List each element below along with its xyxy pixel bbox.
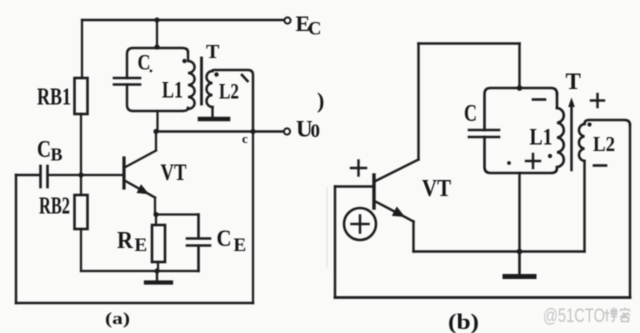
phase dot left in tank (b) xyxy=(507,161,511,165)
svg-text:C: C xyxy=(217,226,232,251)
svg-text:B: B xyxy=(51,145,63,165)
scan artifact: faint vertical line xyxy=(326,187,328,268)
resistor RB2 xyxy=(75,195,88,229)
svg-text:VT: VT xyxy=(422,176,451,202)
polarity + above L2 (b) xyxy=(591,94,604,107)
wire: collector node to U0 terminal (a) xyxy=(156,130,283,132)
tank frame (a) xyxy=(127,48,188,111)
capacitor CE xyxy=(157,215,210,272)
wire: emitter node to RE (a) xyxy=(155,215,157,226)
inductor L1 (b) xyxy=(557,108,564,167)
resistor RE xyxy=(152,225,165,262)
svg-text:L2: L2 xyxy=(593,132,615,156)
polarity minus in tank (b) xyxy=(533,98,545,101)
inductor L2 (a) xyxy=(207,70,254,132)
wire: top rail down to tank top (b) xyxy=(518,44,520,89)
svg-text:): ) xyxy=(317,88,324,113)
wire: rail down to RB1 (a) xyxy=(81,20,83,78)
wire: emitter to L2 return (b) xyxy=(414,250,585,252)
inductor L1 (a) xyxy=(188,52,195,109)
wire: tank bottom lead to ground node (b) xyxy=(518,173,520,252)
label CB xyxy=(37,137,63,165)
watermark hanzi 客 xyxy=(620,308,630,322)
svg-text:(b): (b) xyxy=(448,309,479,333)
junction: rail / tank riser (a) xyxy=(154,17,159,22)
wire: EC supply rail (a) xyxy=(82,19,284,21)
label EC xyxy=(296,11,322,40)
wire: emitter node to CE branch (a) xyxy=(156,213,199,215)
speck after C label (a) xyxy=(150,70,153,73)
capacitor CB xyxy=(16,166,48,187)
wire: emitter drop (b) xyxy=(412,222,414,252)
wire: base node down to RB2 (a) xyxy=(80,175,82,195)
wire: left feedback edge (a) xyxy=(15,175,17,303)
terminal U0 xyxy=(284,128,290,134)
source symbol (b) xyxy=(344,208,376,240)
wire: rail down to tank top (a) xyxy=(156,20,158,47)
phase dot right in tank (b) xyxy=(548,154,552,158)
wire: bottom rail (a) xyxy=(16,302,253,305)
svg-text:L2: L2 xyxy=(219,79,239,104)
inductor L2 (b) xyxy=(579,120,630,161)
junction: L2 return on U0 wire (a) xyxy=(250,129,255,134)
polarity + at base (b) xyxy=(351,161,366,176)
label U0 xyxy=(296,117,320,143)
tank frame (b) xyxy=(485,88,558,173)
svg-text:RB2: RB2 xyxy=(39,194,70,220)
svg-text:T: T xyxy=(566,69,581,94)
svg-text:C: C xyxy=(37,137,51,163)
wire: collector riser (b) xyxy=(417,44,419,160)
polarity plus in tank (b) xyxy=(526,154,540,168)
wire: tank bottom to collector node (a) xyxy=(156,111,158,130)
polarity minus below L2 (b) xyxy=(594,164,606,167)
label RE xyxy=(117,228,147,256)
junction: ground node (a) xyxy=(154,268,159,273)
wire: tank right edge upper stub (b) xyxy=(556,94,559,108)
wire: base wire (b) xyxy=(335,185,372,187)
wire: L2 bottom lead (a) xyxy=(211,107,213,117)
wire: L2 bottom lead down to emitter rail (b) xyxy=(583,161,585,252)
label CE xyxy=(217,226,247,256)
svg-text:@51CTO: @51CTO xyxy=(543,306,605,327)
wire: RB2 bottom down (a) xyxy=(80,229,82,271)
tick mark L2 (a) xyxy=(242,75,248,81)
svg-text:E: E xyxy=(234,235,247,256)
capacitor C (a) xyxy=(114,78,140,85)
svg-text:(a): (a) xyxy=(105,309,130,328)
junction: emitter node (a) xyxy=(153,212,158,217)
watermark @51CTO xyxy=(543,306,605,327)
svg-text:RB1: RB1 xyxy=(37,85,71,111)
transistor VT (a) xyxy=(124,132,156,215)
capacitor C (b) xyxy=(469,130,499,137)
wire: base node to transistor base (a) xyxy=(48,174,122,176)
svg-text:T: T xyxy=(206,41,220,63)
wire: bottom rail (b) xyxy=(335,296,630,299)
wire: output loop right edge (b) xyxy=(629,125,631,298)
svg-text:VT: VT xyxy=(161,160,187,185)
wire: top rail (b) xyxy=(419,42,520,45)
ground: emitter (a) xyxy=(146,271,171,283)
transformer core T (a) xyxy=(200,58,203,104)
svg-text:c: c xyxy=(242,131,248,146)
svg-text:L1: L1 xyxy=(530,125,553,150)
polarity dot L2 (a) xyxy=(214,72,218,76)
polarity dot L1 (a) xyxy=(182,59,186,63)
resistor RB1 xyxy=(75,78,88,114)
junction: tank top (a) xyxy=(154,44,159,49)
svg-text:C: C xyxy=(138,50,151,75)
wire: RB2 bottom to emitter ground node (a) xyxy=(81,270,157,272)
junction: ground node (b) xyxy=(517,249,523,255)
junction: collector node (a) xyxy=(153,129,158,134)
svg-text:C: C xyxy=(464,101,477,127)
watermark hanzi 博 xyxy=(605,308,618,322)
wire: RB1 bottom to base node (a) xyxy=(80,114,82,175)
terminal EC (a) xyxy=(284,17,290,23)
wire: base loop left edge (b) xyxy=(334,187,336,298)
wire: right edge U0 node down to bottom rail (a) xyxy=(252,132,254,304)
ground (b) xyxy=(505,252,534,277)
ground: transformer secondary (a) xyxy=(200,117,228,122)
junction: base node (a) xyxy=(78,172,83,177)
svg-text:R: R xyxy=(117,228,134,254)
svg-text:E: E xyxy=(135,235,148,256)
wire: RE bottom to ground node (a) xyxy=(157,262,159,271)
transformer core T (b) xyxy=(568,98,575,171)
polarity dot L2 (b) xyxy=(587,122,591,126)
junction: tank top (b) xyxy=(517,85,523,91)
transistor VT (b) xyxy=(374,160,419,222)
svg-text:0: 0 xyxy=(311,121,321,142)
svg-text:C: C xyxy=(308,20,321,40)
svg-text:L1: L1 xyxy=(162,78,183,103)
